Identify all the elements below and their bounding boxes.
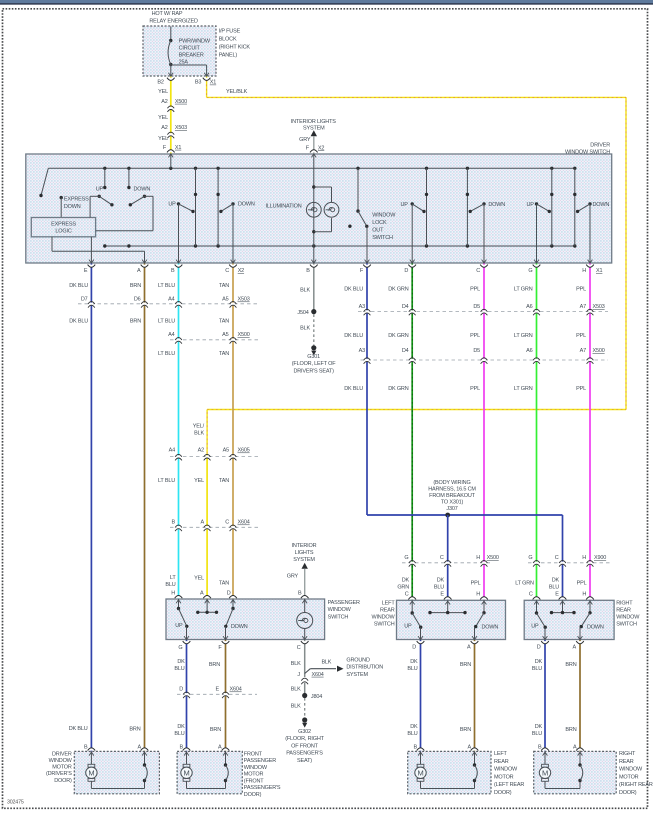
svg-text:FRONT: FRONT bbox=[244, 751, 263, 757]
svg-text:RIGHT: RIGHT bbox=[619, 751, 636, 757]
svg-text:DRIVER: DRIVER bbox=[590, 143, 610, 149]
svg-text:DK GRN: DK GRN bbox=[388, 386, 409, 392]
svg-text:BLU: BLU bbox=[549, 585, 559, 591]
svg-text:DK: DK bbox=[410, 659, 418, 665]
svg-text:FROM BREAKOUT: FROM BREAKOUT bbox=[429, 493, 475, 499]
svg-text:A3: A3 bbox=[359, 304, 365, 310]
svg-text:SYSTEM: SYSTEM bbox=[293, 557, 315, 563]
svg-text:YEL: YEL bbox=[158, 136, 168, 142]
wire DK BLU pin F to J307 bbox=[366, 263, 368, 515]
svg-text:SWITCH: SWITCH bbox=[328, 614, 349, 620]
svg-text:X604: X604 bbox=[238, 520, 250, 526]
svg-text:BRN: BRN bbox=[565, 662, 576, 668]
svg-text:LT GRN: LT GRN bbox=[514, 287, 533, 293]
svg-text:D4: D4 bbox=[402, 348, 409, 354]
group4 UP blade bbox=[535, 202, 538, 205]
feed stub bbox=[170, 154, 172, 168]
svg-text:TAN: TAN bbox=[219, 478, 229, 484]
pin F X2 bbox=[310, 150, 318, 153]
svg-text:LIGHTS: LIGHTS bbox=[295, 550, 314, 556]
wire GRY lower bbox=[304, 569, 306, 599]
svg-text:BRN: BRN bbox=[129, 727, 140, 733]
svg-text:DRIVER'S SEAT): DRIVER'S SEAT) bbox=[293, 368, 334, 374]
pin B2 bbox=[167, 78, 175, 81]
svg-text:BRN: BRN bbox=[209, 662, 220, 668]
svg-text:(FLOOR, LEFT OF: (FLOOR, LEFT OF bbox=[292, 361, 336, 367]
svg-text:DOOR): DOOR) bbox=[244, 792, 262, 798]
express logic box bbox=[31, 218, 95, 237]
svg-text:DK: DK bbox=[535, 659, 543, 665]
svg-text:WINDOW: WINDOW bbox=[619, 767, 643, 773]
svg-text:DOOR): DOOR) bbox=[54, 778, 72, 784]
svg-text:YEL: YEL bbox=[158, 115, 168, 121]
wire BRN pin A to driver motor bbox=[144, 263, 146, 751]
svg-text:LT BLU: LT BLU bbox=[158, 283, 175, 289]
svg-text:RIGHT: RIGHT bbox=[616, 601, 633, 607]
right rear window switch box bbox=[524, 600, 614, 639]
svg-text:B: B bbox=[171, 268, 175, 274]
svg-text:X1: X1 bbox=[175, 145, 181, 151]
svg-text:CIRCUIT: CIRCUIT bbox=[179, 46, 201, 52]
svg-text:BLK: BLK bbox=[194, 431, 204, 437]
group2 DOWN blade bbox=[231, 202, 234, 205]
svg-text:DOWN: DOWN bbox=[64, 204, 81, 210]
driver window motor box bbox=[74, 751, 159, 793]
svg-text:C: C bbox=[405, 591, 409, 597]
svg-text:(RIGHT REAR: (RIGHT REAR bbox=[619, 782, 653, 788]
wire to pin F bbox=[366, 226, 368, 263]
junction J804 bbox=[302, 693, 307, 698]
wire TAN pin C to passenger switch bbox=[232, 263, 234, 599]
svg-text:BLU: BLU bbox=[434, 585, 444, 591]
svg-text:B: B bbox=[84, 745, 88, 751]
svg-text:X604: X604 bbox=[230, 687, 242, 693]
branch to ground distribution bbox=[305, 669, 311, 674]
left rear switch internals bbox=[411, 600, 413, 613]
group3 DOWN blade bbox=[482, 202, 485, 205]
wire BRN right rear switch to motor bbox=[579, 640, 581, 752]
svg-text:GRN: GRN bbox=[397, 585, 409, 591]
right rear window motor box motor symbol bbox=[544, 751, 546, 764]
svg-text:H: H bbox=[476, 591, 480, 597]
svg-text:A: A bbox=[200, 591, 204, 597]
top window bar bbox=[0, 0, 653, 3]
arrow ground distribution bbox=[337, 666, 344, 672]
right rear window motor box circuit breaker bbox=[579, 751, 581, 765]
wire PPL pin C bbox=[483, 263, 485, 600]
svg-text:C: C bbox=[297, 645, 301, 651]
wire to pin A bbox=[144, 251, 146, 263]
svg-text:PPL: PPL bbox=[470, 386, 480, 392]
dashed BLK to G302 bbox=[304, 698, 306, 718]
svg-text:BRN: BRN bbox=[210, 727, 221, 733]
svg-text:D4: D4 bbox=[402, 304, 409, 310]
group2 UP blade bbox=[177, 202, 180, 205]
svg-text:BLU: BLU bbox=[165, 582, 175, 588]
connector X500 bbox=[169, 107, 172, 110]
svg-text:DOWN: DOWN bbox=[587, 624, 604, 630]
svg-text:F: F bbox=[218, 645, 222, 651]
svg-text:G: G bbox=[528, 555, 532, 561]
svg-text:J504: J504 bbox=[297, 310, 308, 316]
svg-text:X503: X503 bbox=[238, 297, 250, 303]
wire to pin E bbox=[90, 237, 92, 263]
svg-text:J307: J307 bbox=[446, 506, 457, 512]
svg-text:A5: A5 bbox=[223, 448, 229, 454]
svg-text:BREAKER: BREAKER bbox=[179, 53, 204, 59]
svg-text:DK BLU: DK BLU bbox=[344, 287, 363, 293]
svg-text:WINDOW: WINDOW bbox=[494, 767, 518, 773]
group2 DOWN fixed column bbox=[217, 168, 219, 246]
group4 DOWN blade bbox=[588, 202, 591, 205]
svg-text:(DRIVER'S: (DRIVER'S bbox=[46, 771, 72, 777]
svg-text:REAR: REAR bbox=[619, 759, 634, 765]
ground G302 bbox=[302, 717, 307, 722]
svg-text:B: B bbox=[298, 591, 302, 597]
svg-text:(BODY WIRING: (BODY WIRING bbox=[433, 480, 470, 486]
front passenger window motor box motor symbol bbox=[186, 751, 188, 764]
svg-text:TAN: TAN bbox=[219, 283, 229, 289]
svg-text:MOTOR: MOTOR bbox=[244, 772, 264, 778]
svg-text:G: G bbox=[528, 268, 532, 274]
pin B3 bbox=[203, 78, 211, 81]
svg-text:PASSENGER'S: PASSENGER'S bbox=[244, 785, 281, 791]
svg-text:BRN: BRN bbox=[460, 727, 471, 733]
svg-text:DRIVER: DRIVER bbox=[52, 751, 72, 757]
svg-text:X1: X1 bbox=[210, 80, 216, 86]
wire YEL/BLK long route bbox=[206, 77, 208, 98]
svg-text:D: D bbox=[404, 268, 408, 274]
svg-text:YEL: YEL bbox=[158, 89, 168, 95]
svg-text:DK BLU: DK BLU bbox=[69, 319, 88, 325]
svg-text:H: H bbox=[582, 591, 586, 597]
svg-text:UP: UP bbox=[404, 624, 412, 630]
svg-text:LOCK: LOCK bbox=[372, 220, 387, 226]
wire DK BLU passenger switch to motor bbox=[186, 640, 188, 752]
pin F X1 bbox=[167, 150, 175, 153]
svg-text:DOWN: DOWN bbox=[593, 202, 610, 208]
driver window motor box circuit breaker bbox=[144, 751, 146, 765]
svg-text:X500: X500 bbox=[238, 332, 250, 338]
svg-text:REAR: REAR bbox=[380, 608, 395, 614]
svg-text:A2: A2 bbox=[161, 99, 167, 105]
wire DK BLU pin E to driver motor bbox=[90, 263, 92, 751]
left rear window motor box circuit breaker bbox=[474, 751, 476, 765]
svg-text:PASSENGER'S: PASSENGER'S bbox=[286, 751, 323, 757]
passenger window switch box bbox=[166, 599, 325, 640]
svg-text:LT GRN: LT GRN bbox=[514, 386, 533, 392]
svg-text:D: D bbox=[537, 645, 541, 651]
svg-text:BRN: BRN bbox=[130, 283, 141, 289]
svg-text:H: H bbox=[171, 591, 175, 597]
svg-text:X503: X503 bbox=[593, 304, 605, 310]
svg-text:BLU: BLU bbox=[532, 731, 542, 737]
driver window switch box bbox=[26, 154, 612, 263]
svg-text:ILLUMINATION: ILLUMINATION bbox=[266, 204, 302, 210]
svg-text:B: B bbox=[306, 268, 310, 274]
svg-text:DOWN: DOWN bbox=[488, 202, 505, 208]
left rear window motor box bbox=[408, 751, 491, 793]
svg-text:A6: A6 bbox=[526, 304, 532, 310]
svg-text:C: C bbox=[529, 591, 533, 597]
svg-text:(FRONT: (FRONT bbox=[244, 778, 265, 784]
svg-text:MOTOR: MOTOR bbox=[619, 774, 639, 780]
svg-text:C: C bbox=[225, 268, 229, 274]
svg-text:B2: B2 bbox=[157, 80, 163, 86]
svg-text:A: A bbox=[467, 645, 471, 651]
svg-text:(RIGHT KICK: (RIGHT KICK bbox=[219, 44, 251, 50]
svg-text:M: M bbox=[542, 769, 548, 778]
svg-text:D: D bbox=[227, 591, 231, 597]
wire YEL to passenger switch bbox=[206, 455, 208, 599]
svg-text:X2: X2 bbox=[238, 268, 244, 274]
I/P fuse block box bbox=[143, 26, 216, 76]
wire DK BLU to right rear switch bbox=[562, 515, 564, 600]
svg-text:PASSENGER: PASSENGER bbox=[244, 758, 276, 764]
svg-text:BLU: BLU bbox=[174, 666, 184, 672]
svg-text:A4: A4 bbox=[168, 297, 174, 303]
svg-text:BLU: BLU bbox=[174, 731, 184, 737]
svg-text:DOWN: DOWN bbox=[231, 624, 248, 630]
svg-text:GRY: GRY bbox=[287, 574, 299, 580]
svg-text:TAN: TAN bbox=[219, 319, 229, 325]
svg-text:X500: X500 bbox=[487, 555, 499, 561]
svg-text:DK: DK bbox=[552, 578, 560, 584]
svg-text:C: C bbox=[476, 268, 480, 274]
right rear window motor box bbox=[534, 751, 617, 793]
svg-text:I/P FUSE: I/P FUSE bbox=[219, 28, 241, 34]
svg-text:G301: G301 bbox=[307, 354, 320, 360]
svg-text:D6: D6 bbox=[134, 297, 141, 303]
svg-text:DK: DK bbox=[402, 578, 410, 584]
circuit breaker PWR/WNDW 25A bbox=[170, 27, 172, 41]
svg-text:WINDOW: WINDOW bbox=[616, 615, 640, 621]
svg-text:OF FRONT: OF FRONT bbox=[291, 743, 318, 749]
svg-text:LT BLU: LT BLU bbox=[158, 478, 175, 484]
svg-text:DK: DK bbox=[437, 578, 445, 584]
svg-text:PANEL): PANEL) bbox=[219, 52, 238, 58]
right rear switch internals bbox=[536, 600, 538, 613]
svg-text:DK BLU: DK BLU bbox=[344, 333, 363, 339]
svg-text:A: A bbox=[218, 745, 222, 751]
svg-text:H: H bbox=[476, 555, 480, 561]
arrow up bbox=[311, 130, 317, 136]
svg-text:GRY: GRY bbox=[299, 137, 311, 143]
svg-text:REAR: REAR bbox=[616, 608, 631, 614]
svg-text:DOWN: DOWN bbox=[134, 187, 151, 193]
svg-text:WINDOW: WINDOW bbox=[372, 212, 396, 218]
svg-text:LEFT: LEFT bbox=[382, 601, 396, 607]
group4 DOWN fixed column bbox=[574, 168, 576, 246]
svg-text:G: G bbox=[178, 645, 182, 651]
svg-text:J804: J804 bbox=[311, 694, 322, 700]
svg-text:BLK: BLK bbox=[300, 326, 310, 332]
svg-text:C: C bbox=[225, 520, 229, 526]
svg-text:X1: X1 bbox=[596, 268, 602, 274]
ground G301 bbox=[311, 345, 316, 350]
group1 blades bbox=[98, 195, 101, 198]
svg-text:F: F bbox=[360, 268, 364, 274]
svg-text:E: E bbox=[555, 591, 559, 597]
wire DK BLU left rear switch to motor bbox=[420, 640, 422, 752]
svg-text:B: B bbox=[172, 520, 176, 526]
svg-text:PPL: PPL bbox=[470, 287, 480, 293]
svg-text:PPL: PPL bbox=[471, 581, 481, 587]
svg-text:A: A bbox=[573, 645, 577, 651]
svg-text:C: C bbox=[555, 555, 559, 561]
svg-text:PPL: PPL bbox=[577, 581, 587, 587]
svg-text:PPL: PPL bbox=[470, 333, 480, 339]
svg-text:BLK: BLK bbox=[291, 687, 301, 693]
svg-text:DK: DK bbox=[177, 659, 185, 665]
group3 UP blade bbox=[411, 202, 414, 205]
svg-text:LT BLU: LT BLU bbox=[158, 351, 175, 357]
svg-text:X605: X605 bbox=[238, 448, 250, 454]
svg-text:M: M bbox=[88, 769, 94, 778]
svg-text:BLU: BLU bbox=[407, 731, 417, 737]
svg-text:A5: A5 bbox=[222, 297, 228, 303]
svg-text:E: E bbox=[84, 268, 88, 274]
svg-text:A6: A6 bbox=[526, 348, 532, 354]
svg-text:WINDOW: WINDOW bbox=[328, 607, 352, 613]
svg-text:DK: DK bbox=[535, 724, 543, 730]
wire BRN passenger switch to motor bbox=[225, 640, 227, 752]
svg-text:YEL: YEL bbox=[194, 576, 204, 582]
svg-text:DOWN: DOWN bbox=[482, 624, 499, 630]
svg-text:REAR: REAR bbox=[494, 759, 509, 765]
svg-text:X900: X900 bbox=[594, 555, 606, 561]
svg-text:INTERIOR: INTERIOR bbox=[292, 543, 317, 549]
svg-text:EXPRESS: EXPRESS bbox=[64, 197, 89, 203]
wire DK GRN pin D bbox=[411, 263, 413, 600]
svg-text:G: G bbox=[404, 555, 408, 561]
svg-text:E: E bbox=[440, 591, 444, 597]
svg-text:UP: UP bbox=[401, 202, 409, 208]
svg-text:A5: A5 bbox=[222, 332, 228, 338]
window lock out switch bbox=[357, 168, 359, 211]
svg-text:INTERIOR LIGHTS: INTERIOR LIGHTS bbox=[291, 119, 336, 125]
svg-text:F: F bbox=[163, 145, 167, 151]
express contact bbox=[60, 196, 63, 199]
lamp 1 bbox=[306, 202, 321, 217]
svg-text:M: M bbox=[417, 769, 423, 778]
svg-text:G302: G302 bbox=[298, 729, 311, 735]
svg-text:UP: UP bbox=[531, 624, 539, 630]
svg-text:SYSTEM: SYSTEM bbox=[303, 126, 325, 132]
svg-text:M: M bbox=[183, 769, 189, 778]
svg-text:MOTOR: MOTOR bbox=[494, 774, 514, 780]
illumination circuit bbox=[313, 154, 315, 263]
svg-text:DK BLU: DK BLU bbox=[69, 283, 88, 289]
svg-text:BRN: BRN bbox=[460, 662, 471, 668]
svg-text:C: C bbox=[440, 555, 444, 561]
svg-text:BLOCK: BLOCK bbox=[219, 36, 237, 42]
svg-text:DISTRIBUTION: DISTRIBUTION bbox=[346, 665, 383, 671]
front passenger window motor box circuit breaker bbox=[225, 751, 227, 765]
svg-text:302475: 302475 bbox=[7, 800, 24, 806]
svg-text:SWITCH: SWITCH bbox=[372, 235, 393, 241]
group3 DOWN fixed column bbox=[466, 168, 468, 246]
svg-text:OUT: OUT bbox=[372, 228, 384, 234]
svg-text:A2: A2 bbox=[161, 125, 167, 131]
wire GRY bbox=[313, 136, 315, 154]
svg-text:J: J bbox=[297, 672, 300, 678]
svg-text:25A: 25A bbox=[179, 60, 189, 66]
svg-text:UP: UP bbox=[96, 187, 104, 193]
bottom bus bbox=[105, 245, 575, 247]
svg-text:DOOR): DOOR) bbox=[619, 790, 637, 796]
svg-text:X604: X604 bbox=[312, 672, 324, 678]
svg-text:A7: A7 bbox=[580, 348, 586, 354]
svg-text:WINDOW: WINDOW bbox=[371, 615, 395, 621]
svg-text:H: H bbox=[582, 268, 586, 274]
svg-text:DK GRN: DK GRN bbox=[388, 333, 409, 339]
svg-text:A4: A4 bbox=[169, 448, 175, 454]
svg-text:EXPRESS: EXPRESS bbox=[51, 221, 76, 227]
svg-text:YEL: YEL bbox=[194, 478, 204, 484]
lamp 2 bbox=[324, 202, 339, 217]
wire DK BLU J307 horizontal bbox=[367, 514, 563, 516]
svg-text:BLK: BLK bbox=[291, 704, 301, 710]
svg-text:PPL: PPL bbox=[576, 333, 586, 339]
connector X503 bbox=[169, 133, 172, 136]
svg-text:DOOR): DOOR) bbox=[494, 790, 512, 796]
svg-text:(FLOOR, RIGHT: (FLOOR, RIGHT bbox=[285, 736, 324, 742]
svg-text:LT: LT bbox=[170, 575, 176, 581]
svg-text:SEAT): SEAT) bbox=[297, 758, 312, 764]
svg-text:UP: UP bbox=[175, 623, 183, 629]
svg-text:X500: X500 bbox=[593, 348, 605, 354]
svg-text:DK: DK bbox=[177, 724, 185, 730]
svg-text:TO X301): TO X301) bbox=[441, 500, 464, 506]
svg-text:DK: DK bbox=[410, 724, 418, 730]
svg-text:YEL/: YEL/ bbox=[193, 424, 205, 430]
svg-text:PPL: PPL bbox=[576, 287, 586, 293]
svg-text:X2: X2 bbox=[318, 145, 324, 151]
svg-text:UP: UP bbox=[168, 202, 176, 208]
group2 UP fixed column bbox=[195, 168, 197, 246]
svg-text:RELAY ENERGIZED: RELAY ENERGIZED bbox=[149, 18, 198, 24]
connector X604 on BLK bbox=[303, 679, 306, 682]
wire DK BLU right rear switch to motor bbox=[544, 640, 546, 752]
left rear window motor box motor symbol bbox=[420, 751, 422, 764]
express down switch blade bbox=[41, 168, 48, 195]
svg-text:D: D bbox=[179, 687, 183, 693]
driver window motor box motor symbol bbox=[90, 751, 92, 764]
group3 UP fixed column bbox=[426, 168, 428, 246]
svg-text:LT GRN: LT GRN bbox=[515, 581, 534, 587]
svg-text:BLK: BLK bbox=[321, 660, 331, 666]
svg-text:X503: X503 bbox=[175, 125, 187, 131]
svg-text:MOTOR: MOTOR bbox=[52, 765, 72, 771]
svg-text:TAN: TAN bbox=[219, 581, 229, 587]
wire BRN left rear switch to motor bbox=[474, 640, 476, 752]
svg-text:A7: A7 bbox=[580, 304, 586, 310]
svg-text:BLK: BLK bbox=[291, 661, 301, 667]
svg-text:UP: UP bbox=[527, 202, 535, 208]
svg-text:BRN: BRN bbox=[565, 727, 576, 733]
wire LT GRN pin G bbox=[536, 263, 538, 600]
svg-text:A2: A2 bbox=[198, 448, 204, 454]
svg-text:A4: A4 bbox=[168, 332, 174, 338]
wire branch to B3 bbox=[171, 64, 207, 66]
svg-text:BLU: BLU bbox=[407, 666, 417, 672]
svg-text:DK BLU: DK BLU bbox=[344, 386, 363, 392]
passenger switch internals bbox=[178, 599, 180, 609]
svg-text:E: E bbox=[216, 687, 220, 693]
group1 up/down contacts bbox=[104, 168, 106, 187]
svg-text:BRN: BRN bbox=[130, 319, 141, 325]
